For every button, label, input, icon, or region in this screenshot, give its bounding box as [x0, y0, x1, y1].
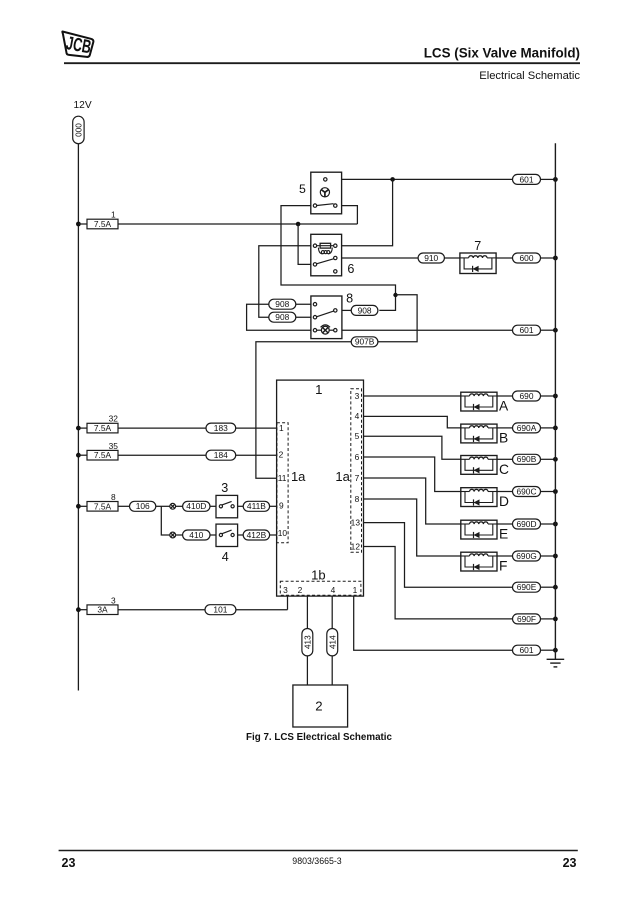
wire lamp to 601	[337, 329, 513, 331]
connector 1a right	[351, 389, 362, 553]
wire 600	[513, 253, 541, 263]
svg-text:D: D	[499, 494, 509, 509]
wire 101	[205, 605, 236, 615]
wire pin6 to valve D	[364, 457, 461, 492]
svg-text:8: 8	[355, 494, 360, 504]
svg-text:184: 184	[214, 450, 228, 460]
ignition key symbol	[320, 188, 329, 197]
svg-text:LCS (Six Valve Manifold): LCS (Six Valve Manifold)	[424, 46, 580, 61]
svg-text:413: 413	[304, 635, 313, 649]
connector 1a left	[277, 423, 288, 543]
wire 412B to pin10	[270, 534, 277, 536]
switch 8 contact	[317, 311, 335, 317]
svg-text:7.5A: 7.5A	[94, 219, 112, 229]
wire 600 to earth bus	[541, 257, 556, 259]
solenoid valve C	[461, 456, 497, 475]
svg-text:2: 2	[315, 699, 322, 714]
wire pin4 to valve B	[364, 416, 461, 428]
svg-text:9803/3665-3: 9803/3665-3	[292, 856, 342, 866]
wire 413	[302, 629, 313, 656]
junction left bus fuse1	[76, 222, 81, 227]
wire 910	[418, 253, 444, 263]
wire fuse8 row	[78, 505, 87, 507]
svg-text:B: B	[499, 430, 508, 445]
junction node 908	[393, 293, 397, 297]
svg-text:908: 908	[275, 312, 289, 322]
wire 690D	[513, 519, 541, 529]
wire switch5 feed	[337, 206, 357, 224]
svg-text:690B: 690B	[517, 454, 537, 464]
wire 183	[206, 423, 236, 433]
svg-text:1: 1	[353, 585, 358, 595]
fuse F32 7.5A	[87, 423, 118, 433]
wire 410D to switch3	[210, 505, 216, 507]
wire switch4 to 412B	[238, 534, 244, 536]
svg-text:9: 9	[279, 501, 284, 511]
wire pin12 to 690F	[364, 547, 513, 619]
svg-text:412B: 412B	[247, 530, 267, 540]
wire pin2 to 413	[306, 596, 308, 685]
wire relay6 coil right	[337, 179, 393, 245]
svg-text:7: 7	[355, 473, 360, 483]
svg-text:3: 3	[221, 481, 228, 495]
junction switch5 output	[390, 177, 395, 182]
wire fuse1 row	[78, 223, 87, 225]
diagnostic unit 2	[293, 685, 348, 727]
svg-text:7: 7	[474, 239, 481, 253]
header rule	[64, 62, 580, 64]
svg-text:32: 32	[109, 414, 119, 424]
JCB logo	[62, 31, 93, 56]
wire fuse35 row	[78, 454, 87, 456]
battery connector 000	[73, 116, 84, 144]
solenoid valve F	[461, 552, 497, 571]
wire valve C to 690B	[497, 458, 513, 460]
wire pin13 to 690E	[364, 523, 513, 588]
wire switch5 to relay6	[298, 224, 313, 264]
svg-text:690E: 690E	[517, 582, 537, 592]
junction left bus fuse32	[76, 426, 81, 431]
wire 601 bottom	[513, 645, 541, 655]
switch 5 ignition	[311, 172, 342, 214]
wire 907B to pin11	[256, 342, 351, 479]
solenoid valve B	[461, 424, 497, 443]
wire 101 to connector pin3	[287, 596, 289, 610]
svg-text:35: 35	[109, 441, 119, 451]
wire 106	[130, 501, 156, 511]
warning lamp	[317, 329, 322, 331]
wire pin1 to 601	[354, 596, 513, 650]
svg-text:690D: 690D	[516, 519, 536, 529]
svg-text:1a: 1a	[291, 469, 306, 484]
wire 908 first	[247, 304, 314, 330]
wire 690F	[513, 614, 541, 624]
svg-text:601: 601	[520, 174, 534, 184]
wire 184	[206, 450, 236, 460]
svg-text:1: 1	[279, 423, 284, 433]
wire relay6 switched output	[337, 257, 418, 259]
svg-text:8: 8	[346, 291, 353, 305]
svg-text:23: 23	[563, 856, 577, 870]
svg-text:8: 8	[111, 492, 116, 502]
switch 4	[216, 524, 238, 546]
wire 690G	[513, 551, 541, 561]
wire valve F to 690G	[497, 555, 513, 557]
connector 1b bottom	[280, 581, 361, 595]
wire pin3 to valve A	[364, 395, 461, 397]
svg-text:6: 6	[355, 452, 360, 462]
wire valve A to 690	[497, 395, 513, 397]
wire splice to 410D	[175, 505, 182, 507]
svg-text:411B: 411B	[247, 501, 266, 511]
svg-text:101: 101	[213, 605, 227, 615]
ground	[547, 659, 565, 667]
wire 411B	[243, 501, 269, 511]
fuse F3 3A	[87, 605, 118, 615]
wire 690E	[513, 582, 541, 592]
svg-text:11: 11	[278, 473, 287, 483]
wire 106 to splice	[156, 505, 170, 507]
wire 908 output	[351, 305, 378, 315]
svg-text:410D: 410D	[186, 501, 206, 511]
wire 690B	[513, 454, 541, 464]
wire 412B	[243, 530, 269, 540]
svg-text:13: 13	[351, 517, 361, 527]
svg-text:414: 414	[328, 635, 337, 649]
svg-text:1: 1	[111, 210, 116, 220]
wire switch3 to 411B	[238, 505, 244, 507]
svg-text:000: 000	[75, 123, 84, 137]
solenoid valve A	[461, 392, 497, 411]
wire splice to 410	[175, 534, 182, 536]
svg-text:A: A	[499, 399, 509, 414]
svg-text:1b: 1b	[311, 568, 325, 583]
svg-text:E: E	[499, 527, 508, 542]
relay 6	[311, 234, 342, 275]
fuse F35 7.5A	[87, 450, 118, 460]
solenoid valve E	[461, 520, 497, 539]
svg-text:690F: 690F	[517, 614, 536, 624]
svg-text:12V: 12V	[74, 100, 92, 111]
solenoid valve D	[461, 488, 497, 507]
wire valve D to 690C	[497, 491, 513, 493]
junction left bus fuse3	[76, 607, 81, 612]
wire 411B to pin9	[270, 505, 277, 507]
svg-text:4: 4	[355, 411, 360, 421]
svg-text:7.5A: 7.5A	[94, 501, 112, 511]
junction node fuse1 row	[296, 222, 301, 227]
wire valve B to 690A	[497, 427, 513, 429]
fuse F8 7.5A	[87, 502, 118, 512]
svg-text:106: 106	[136, 501, 150, 511]
wire switch5 output 601	[327, 178, 512, 180]
svg-text:4: 4	[222, 550, 229, 564]
svg-text:2: 2	[298, 585, 303, 595]
wire pin4 to 414	[331, 596, 333, 685]
switch 5 contact	[317, 204, 334, 206]
wire 690A	[513, 423, 541, 433]
wire branch to lower splice	[161, 506, 170, 535]
switch unit 8	[311, 296, 342, 339]
svg-text:3: 3	[111, 595, 116, 605]
svg-text:6: 6	[347, 262, 354, 276]
splice lower	[170, 532, 176, 538]
wire valve E to 690D	[497, 523, 513, 525]
wire left supply bus	[77, 144, 79, 691]
wire 601 top	[513, 174, 541, 184]
wire 410 to switch4	[210, 534, 216, 536]
svg-text:F: F	[499, 559, 507, 574]
wire fuse32 row	[78, 427, 87, 429]
wire 410D	[183, 501, 210, 511]
svg-text:1: 1	[315, 382, 322, 397]
svg-text:183: 183	[214, 423, 228, 433]
svg-text:690: 690	[520, 391, 534, 401]
svg-text:910: 910	[424, 253, 438, 263]
svg-text:12: 12	[351, 541, 361, 551]
relay 6 spare pin	[334, 270, 337, 273]
footer rule	[59, 850, 578, 852]
svg-text:23: 23	[62, 856, 76, 870]
wire 410	[183, 530, 210, 540]
wire node908 to 907B return	[378, 295, 417, 342]
svg-text:601: 601	[520, 645, 534, 655]
wire 690C	[513, 487, 541, 497]
wire 601 mid	[513, 325, 541, 335]
svg-text:410: 410	[189, 530, 203, 540]
wire pin5 to valve C	[364, 436, 461, 459]
junction left bus fuse35	[76, 453, 81, 458]
svg-text:3: 3	[355, 391, 360, 401]
svg-text:1a: 1a	[335, 469, 350, 484]
svg-text:7.5A: 7.5A	[94, 450, 112, 460]
svg-text:5: 5	[355, 431, 360, 441]
wire 690	[513, 391, 541, 401]
wire solenoid7 to 600	[496, 257, 512, 259]
fuse F1 7.5A	[87, 219, 118, 229]
svg-text:3A: 3A	[97, 605, 108, 615]
wire relay6 coil left	[259, 246, 314, 318]
svg-text:690C: 690C	[516, 486, 536, 496]
wire earth bus	[554, 143, 556, 659]
svg-text:10: 10	[278, 528, 288, 538]
switch 3	[216, 495, 238, 517]
svg-text:601: 601	[520, 325, 534, 335]
relay 6 coil	[317, 245, 334, 247]
controller block 1	[277, 380, 364, 596]
svg-text:5: 5	[299, 182, 306, 196]
junction left bus fuse8	[76, 504, 81, 509]
svg-text:690G: 690G	[516, 551, 537, 561]
svg-text:4: 4	[331, 585, 336, 595]
relay 6 contact	[317, 259, 335, 264]
svg-text:C: C	[499, 462, 509, 477]
svg-text:907B: 907B	[355, 337, 375, 347]
svg-text:600: 600	[520, 253, 534, 263]
wire 907B	[351, 337, 378, 347]
svg-text:7.5A: 7.5A	[94, 423, 112, 433]
solenoid 7	[460, 253, 496, 274]
wire 414	[327, 629, 338, 656]
svg-text:Fig 7. LCS Electrical Schemati: Fig 7. LCS Electrical Schematic	[246, 732, 392, 743]
svg-text:Electrical Schematic: Electrical Schematic	[479, 70, 580, 82]
wire 910 to solenoid7	[444, 257, 460, 259]
svg-text:908: 908	[358, 305, 372, 315]
svg-text:JCB: JCB	[64, 33, 92, 58]
svg-text:3: 3	[283, 585, 288, 595]
wire pin7 to valve E	[364, 478, 461, 524]
svg-text:908: 908	[275, 299, 289, 309]
svg-text:690A: 690A	[517, 423, 537, 433]
wire switch5 lower-left branch	[281, 206, 396, 311]
splice upper	[170, 503, 176, 509]
wire fuse3 row	[78, 609, 87, 611]
wire pin8 to valve F	[364, 499, 461, 556]
wire 908 second	[269, 312, 296, 322]
svg-text:2: 2	[279, 449, 284, 459]
